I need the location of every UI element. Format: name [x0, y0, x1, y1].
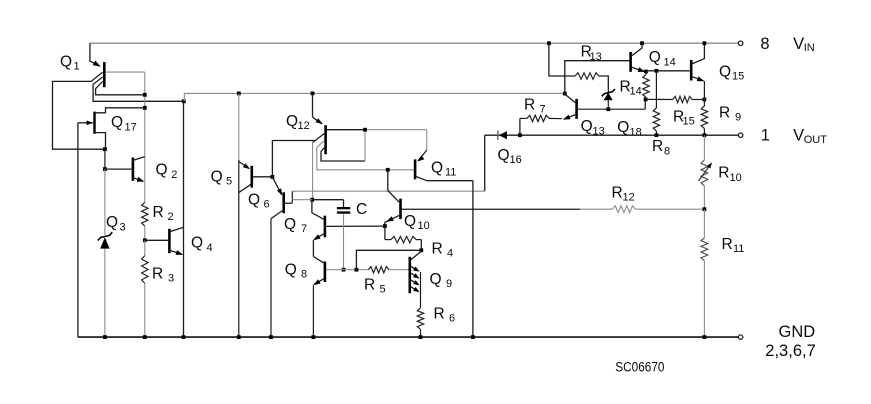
- label GND pins: [765, 342, 815, 360]
- label Q11: [431, 159, 456, 178]
- label Q1: [60, 53, 80, 72]
- svg-text:9: 9: [735, 112, 741, 124]
- label Q14: [649, 49, 676, 68]
- wire Q13 collector riser: [565, 61, 630, 94]
- label Q17: [111, 114, 137, 133]
- wire compensation line: [292, 199, 343, 201]
- transistor Q1: [53, 43, 184, 149]
- node J2: [143, 106, 147, 110]
- wire Q18 bottom link: [644, 99, 646, 109]
- label Q10: [404, 213, 430, 232]
- node G8: [703, 335, 707, 339]
- svg-text:Q: Q: [404, 213, 416, 230]
- wire R4 right drop: [420, 240, 422, 251]
- svg-text:7: 7: [301, 223, 307, 235]
- label Q9: [430, 271, 453, 290]
- node J3: [182, 99, 186, 103]
- wire Q10 base line: [402, 208, 613, 210]
- svg-text:C: C: [356, 201, 367, 218]
- resistor R4: [385, 236, 421, 242]
- resistor R15: [646, 96, 705, 102]
- diode Q16: [498, 131, 507, 140]
- wire V_OUT rail: [485, 134, 739, 136]
- wire node to R3: [144, 240, 146, 255]
- svg-text:14: 14: [664, 57, 676, 69]
- transistor Q10: [385, 170, 401, 226]
- transistor Q11: [415, 130, 473, 181]
- svg-text:18: 18: [630, 126, 642, 138]
- node GND terminal: [738, 335, 742, 339]
- node J17: [518, 133, 522, 137]
- node J10: [363, 128, 367, 132]
- svg-text:R: R: [612, 184, 623, 201]
- label R11: [722, 236, 745, 255]
- wire Q4 bus: [183, 101, 185, 337]
- svg-text:Q: Q: [111, 114, 123, 131]
- transistor Q7: [312, 200, 385, 241]
- svg-text:12: 12: [298, 120, 310, 132]
- wire left bus: [77, 123, 79, 337]
- svg-text:5: 5: [226, 176, 232, 188]
- node J29: [703, 207, 707, 211]
- label R15: [673, 108, 695, 127]
- wire Q17 source to Q2 base node: [104, 149, 106, 169]
- wire R12 to divider: [635, 208, 704, 210]
- node J14: [355, 268, 359, 272]
- wire Q5 bus: [238, 93, 240, 337]
- svg-text:5: 5: [380, 284, 386, 296]
- svg-text:GND: GND: [779, 323, 816, 341]
- svg-text:Q: Q: [211, 168, 223, 185]
- wire Q5 base riser: [272, 141, 314, 177]
- transistor Q8: [313, 240, 325, 285]
- node J24: [703, 98, 707, 102]
- label Q12: [286, 113, 310, 132]
- node J4: [103, 147, 107, 151]
- node J16: [419, 248, 423, 252]
- node J12: [310, 198, 314, 202]
- wire bias line: [184, 93, 565, 101]
- resistor R2: [142, 202, 148, 226]
- svg-text:17: 17: [125, 122, 137, 134]
- node pin-1 terminal: [738, 133, 742, 137]
- label R9: [719, 104, 741, 123]
- svg-text:R: R: [432, 240, 443, 257]
- svg-text:Q: Q: [719, 63, 731, 80]
- node J6: [143, 238, 147, 242]
- capacitor C: [337, 200, 350, 270]
- wire node to R11: [703, 209, 705, 238]
- svg-text:3: 3: [168, 273, 174, 285]
- node J25: [655, 69, 659, 73]
- label R3: [152, 265, 174, 284]
- node J13: [342, 268, 346, 272]
- svg-text:16: 16: [510, 154, 522, 166]
- svg-text:13: 13: [590, 51, 602, 63]
- svg-text:R: R: [722, 236, 733, 253]
- label Q2: [156, 162, 178, 181]
- resistor R5: [368, 267, 389, 273]
- transistor Q15: [691, 43, 704, 81]
- resistor R10: [699, 160, 713, 186]
- svg-text:Q: Q: [431, 159, 443, 176]
- transistor Q5: [239, 162, 273, 193]
- svg-text:2: 2: [171, 169, 177, 181]
- wire Q6 collector bus: [270, 219, 272, 338]
- wire Q8 emitter to GND: [312, 285, 314, 337]
- label Q16: [498, 147, 522, 166]
- label R13: [581, 44, 602, 63]
- transistor Q9: [410, 251, 422, 308]
- wire Q15 emitter drop: [703, 81, 705, 106]
- label pin 1: [761, 127, 770, 145]
- wire R6 to GND: [420, 329, 422, 337]
- node pin-8 terminal: [738, 41, 742, 45]
- svg-text:1: 1: [761, 127, 770, 145]
- wire R10 to node: [703, 186, 705, 209]
- node G4: [269, 335, 273, 339]
- svg-text:15: 15: [683, 116, 695, 128]
- svg-text:4: 4: [447, 248, 453, 260]
- node J8: [311, 92, 315, 96]
- label Q7: [284, 216, 307, 235]
- resistor R11: [701, 238, 708, 261]
- label Q15: [719, 63, 744, 82]
- diode Q18: [602, 89, 615, 109]
- diode Q3: [98, 232, 113, 248]
- svg-text:2,3,6,7: 2,3,6,7: [765, 342, 815, 360]
- label R10: [718, 164, 741, 183]
- node G7: [419, 335, 423, 339]
- transistor Q4: [145, 227, 184, 255]
- svg-text:V: V: [793, 35, 804, 53]
- wire R4 return: [356, 250, 421, 269]
- resistor R14: [643, 72, 649, 100]
- label R12: [612, 184, 635, 203]
- label pin 8: [760, 35, 769, 53]
- svg-text:Q: Q: [106, 214, 118, 231]
- node J19: [606, 107, 610, 111]
- wire Q11 collector to GND: [472, 181, 474, 337]
- wire Q3 to GND: [104, 249, 106, 338]
- transistor Q2: [105, 157, 145, 182]
- svg-text:Q: Q: [156, 162, 168, 179]
- resistor R7: [520, 115, 562, 121]
- label Q5: [211, 168, 233, 187]
- node J15: [383, 224, 387, 228]
- svg-text:Q: Q: [60, 53, 72, 70]
- wire R5 to Q9 base: [389, 269, 409, 271]
- label R14: [620, 78, 642, 97]
- label R7: [524, 96, 546, 115]
- svg-text:1: 1: [74, 61, 80, 73]
- svg-text:13: 13: [593, 125, 605, 137]
- transistor Q14: [631, 43, 646, 72]
- wire R9 to Vout: [703, 129, 705, 136]
- label VOUT: [793, 127, 827, 146]
- node J1: [143, 93, 147, 97]
- label R5: [364, 276, 386, 295]
- node G6: [312, 335, 316, 339]
- svg-text:Q: Q: [498, 147, 510, 164]
- transistor Q6: [271, 177, 292, 219]
- wire Q14-Q15 link: [646, 70, 690, 72]
- resistor R12: [612, 206, 635, 213]
- svg-text:14: 14: [630, 86, 642, 98]
- svg-text:Q: Q: [581, 118, 593, 135]
- label VIN: [793, 35, 815, 54]
- svg-text:8: 8: [760, 35, 769, 53]
- wire GND rail: [78, 336, 739, 338]
- node J18: [563, 92, 567, 96]
- wire feedback line: [292, 190, 484, 192]
- svg-text:2: 2: [168, 211, 174, 223]
- label R8: [652, 138, 670, 157]
- svg-text:OUT: OUT: [804, 134, 828, 146]
- node J9: [271, 175, 275, 179]
- resistor R3: [142, 256, 148, 284]
- label Q18: [617, 119, 642, 138]
- svg-text:IN: IN: [804, 42, 815, 54]
- svg-text:SC06670: SC06670: [615, 359, 664, 374]
- label R6: [434, 305, 456, 324]
- wire R2 to node: [144, 226, 146, 240]
- wire Vout to R10: [703, 135, 705, 160]
- label Q8: [285, 261, 307, 280]
- node J11: [386, 168, 390, 172]
- svg-text:12: 12: [623, 192, 635, 204]
- wire Q8 base line: [326, 269, 368, 271]
- svg-text:V: V: [793, 127, 804, 145]
- wire R3 to GND: [144, 283, 146, 337]
- node J27: [703, 41, 707, 45]
- label Q13: [581, 118, 605, 137]
- node J28: [703, 133, 707, 137]
- svg-text:Q: Q: [285, 261, 297, 278]
- node J20: [547, 41, 551, 45]
- label Q6: [248, 191, 270, 210]
- wire Q2 base node to Q3: [104, 169, 106, 235]
- node G3: [237, 335, 241, 339]
- node G5: [471, 335, 475, 339]
- wire R7 riser: [519, 118, 521, 135]
- svg-text:8: 8: [301, 269, 307, 281]
- svg-text:15: 15: [732, 71, 744, 83]
- svg-text:Q: Q: [248, 191, 260, 208]
- svg-text:R: R: [524, 96, 535, 113]
- svg-text:Q: Q: [649, 49, 661, 66]
- svg-text:R: R: [434, 305, 445, 322]
- label R2: [153, 204, 174, 223]
- resistor R6: [417, 308, 423, 329]
- svg-text:R: R: [719, 104, 730, 121]
- wire Vout sense riser: [484, 135, 486, 191]
- svg-text:7: 7: [540, 104, 546, 116]
- label GND: [779, 323, 816, 341]
- label SC06670: [615, 359, 664, 374]
- wire R11 to GND: [703, 261, 705, 337]
- svg-text:11: 11: [445, 167, 456, 179]
- resistor R9: [701, 106, 707, 129]
- svg-text:Q: Q: [284, 216, 296, 233]
- svg-text:10: 10: [418, 220, 430, 232]
- node G2: [182, 335, 186, 339]
- node J7: [237, 92, 241, 96]
- svg-text:4: 4: [207, 242, 213, 254]
- wire V_IN rail: [90, 42, 739, 44]
- node J26: [655, 133, 659, 137]
- svg-text:10: 10: [730, 172, 742, 184]
- svg-text:Q: Q: [191, 235, 203, 252]
- wire collector bus of Q1/Q2: [144, 72, 146, 202]
- label C: [356, 201, 367, 218]
- svg-text:R: R: [152, 265, 163, 282]
- resistor R13: [549, 43, 608, 89]
- svg-text:3: 3: [120, 222, 126, 234]
- node J22: [640, 41, 644, 45]
- svg-text:8: 8: [664, 145, 670, 157]
- svg-text:6: 6: [449, 313, 455, 325]
- svg-text:6: 6: [264, 199, 270, 211]
- svg-text:11: 11: [733, 243, 744, 255]
- node J21: [644, 98, 648, 102]
- label Q4: [191, 235, 213, 254]
- svg-text:R: R: [652, 138, 663, 155]
- resistor R8: [653, 71, 659, 135]
- svg-text:9: 9: [446, 278, 452, 290]
- node J5: [103, 167, 107, 171]
- svg-text:Q: Q: [430, 271, 442, 288]
- label Q3: [106, 214, 126, 233]
- svg-text:R: R: [364, 276, 375, 293]
- transistor Q13: [563, 95, 645, 120]
- svg-text:Q: Q: [286, 113, 298, 130]
- node G0: [103, 335, 107, 339]
- node J23: [644, 70, 648, 74]
- label R4: [432, 240, 454, 259]
- svg-text:Q: Q: [617, 119, 629, 136]
- node G1: [143, 335, 147, 339]
- svg-text:R: R: [153, 204, 164, 221]
- transistor Q12: [313, 93, 427, 199]
- svg-text:R: R: [718, 164, 729, 181]
- wire Q10 emitter drop: [384, 226, 386, 240]
- wire Q6 base riser: [291, 191, 293, 203]
- transistor Q17: [78, 108, 145, 149]
